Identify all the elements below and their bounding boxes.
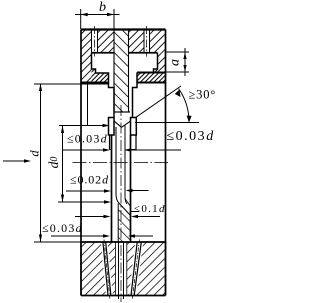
callout at 216: left leader with arrow (75, 216, 105, 218)
callout bottom right leader with arrow (134, 235, 153, 237)
seat ring left cross-section (109, 118, 115, 136)
outline: left outer wall (80, 30, 82, 243)
hatch: top band between stem and right bolt hole (129, 30, 145, 54)
outline: left bolt hole edges (91, 30, 93, 53)
bore right wall (125, 126, 127, 205)
angle arc with arrows (179, 89, 189, 123)
svg-text:d0: d0 (46, 157, 61, 169)
die cone left face (114, 121, 122, 128)
dimension b extension lines (80, 9, 82, 29)
svg-text:≤0.02d: ≤0.02d (70, 173, 109, 187)
white: right slanted hole in bottom block (129, 242, 143, 296)
label d with leader arrow (3, 160, 25, 162)
svg-text:b: b (99, 0, 106, 15)
main vertical centerline (120, 105, 122, 302)
outline: top face of holder (81, 28, 166, 30)
outline: right flange bottom (137, 82, 166, 84)
dimension b line with arrows (75, 14, 120, 16)
centerline: left bolt hole axis (94, 26, 96, 57)
callout 0.03d left at seat: leader with arrow (63, 149, 104, 151)
lower ring left outer wall (109, 135, 111, 150)
outline: die body left wall (111, 135, 113, 242)
hatch: left wall of upper holder (81, 30, 92, 83)
hatch: right shoulder bar (die flange, dense) (137, 69, 166, 83)
hatch: top band between left bolt hole and stem (98, 30, 115, 54)
outline: right flange top (137, 72, 166, 74)
horizontal centerline of seat (73, 162, 169, 164)
svg-text:≤0.03d: ≤0.03d (42, 221, 83, 235)
bore left wall (116, 127, 131, 216)
outline: cavity left profile staircase (92, 53, 115, 118)
lower ring right outer wall (135, 135, 137, 150)
hatch: die exit band above bottom block (118, 204, 130, 243)
dimension d vertical line (34, 83, 109, 85)
bottom block bottom face (81, 295, 166, 297)
svg-text:≤0.1d: ≤0.1d (134, 203, 166, 215)
seat ring right cross-section (131, 118, 137, 136)
die cone right face extended for angle dimension (122, 86, 182, 127)
svg-text:a: a (168, 59, 183, 66)
callout 0.1d right: leader with arrow (132, 190, 149, 192)
neck step line left (87, 84, 89, 126)
outline: right bolt hole edges (143, 30, 145, 53)
right slanted hole edges (131, 242, 137, 296)
outline: stem left edge (113, 30, 115, 113)
callout at 216: right leader with arrow (137, 216, 160, 218)
bottom block top face (81, 241, 166, 243)
hatch: central stem column (114, 30, 129, 113)
left slanted hole edges (103, 242, 108, 296)
die exit cone short diagonal (125, 199, 131, 207)
outline: cavity right profile staircase (154, 53, 158, 73)
svg-text:≤0.03d: ≤0.03d (167, 129, 215, 144)
outline: stem right edge (128, 30, 130, 113)
centerline: right bolt hole axis (146, 26, 148, 57)
hatch: bottom clamping block (81, 242, 166, 296)
svg-text:≥30°: ≥30° (189, 88, 217, 102)
right hole axis (132, 240, 139, 299)
svg-text:≤0.03d: ≤0.03d (67, 132, 108, 146)
outline: left shoulder bottom (81, 82, 109, 84)
dimension d0 vertical line (59, 125, 106, 127)
callout 0.02d left: leader with arrow (66, 190, 105, 192)
hatch: left shoulder bar of die flange (dense) (92, 69, 109, 83)
bottom block right edge (165, 242, 167, 296)
dimension a line with arrows (184, 48, 186, 76)
outline: cavity roof left segment (92, 52, 115, 54)
hatch: top band right of right bolt hole (150, 30, 158, 54)
stem flat bottom face (114, 111, 130, 113)
svg-text:d: d (27, 150, 41, 157)
dimension a extension lines (166, 51, 189, 53)
callout 0.03d bottom left: leader with arrow (51, 235, 104, 237)
outline: right outer wall (165, 30, 167, 243)
white: left slanted hole in bottom block (101, 242, 113, 296)
left hole axis (104, 240, 110, 299)
outline: right flange left edge and wall below (133, 73, 138, 118)
outline: die body right wall (130, 135, 132, 242)
outline: cavity roof right segment (129, 52, 158, 54)
hatch: right wall of upper holder (158, 30, 166, 73)
angle reference horizontal line (135, 122, 199, 124)
white: central wire channel through bottom block (116, 242, 127, 296)
bottom block left edge (80, 242, 82, 296)
central channel walls in block (115, 242, 117, 296)
callout 0.03d right at seat: leader with arrow (130, 149, 181, 151)
